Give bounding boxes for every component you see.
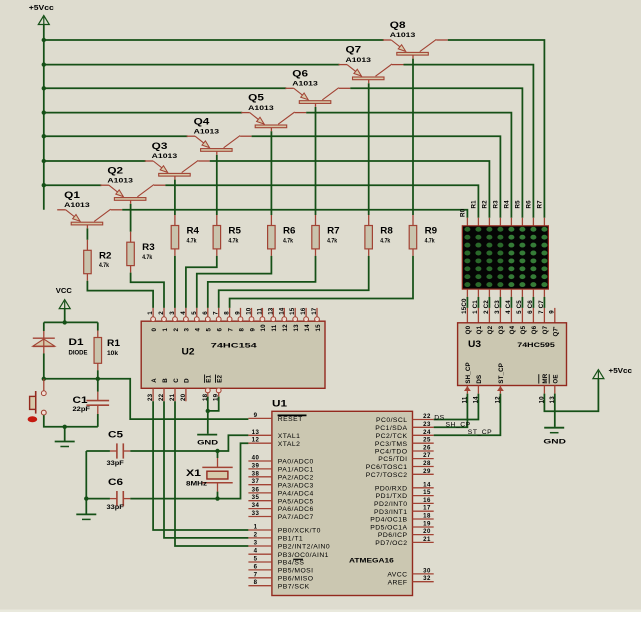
svg-text:8: 8 (224, 311, 231, 315)
svg-text:12: 12 (252, 437, 260, 444)
svg-text:4.7k: 4.7k (283, 237, 293, 244)
svg-text:74HC595: 74HC595 (517, 342, 555, 349)
svg-text:SH_CP: SH_CP (465, 362, 472, 383)
svg-text:+5Vcc: +5Vcc (29, 5, 54, 12)
svg-text:33pF: 33pF (107, 460, 124, 467)
svg-text:9: 9 (249, 328, 256, 332)
svg-text:23: 23 (423, 421, 431, 428)
svg-text:PA1/ADC1: PA1/ADC1 (278, 467, 314, 474)
power +5Vcc (top-left) (29, 5, 54, 25)
svg-text:PC2/TCK: PC2/TCK (376, 433, 408, 440)
svg-text:Q1: Q1 (64, 190, 80, 200)
svg-text:MR: MR (542, 373, 549, 383)
wire: U3 MR to +5Vcc (544, 379, 598, 411)
svg-text:Q5: Q5 (520, 325, 527, 334)
svg-text:ST_CP: ST_CP (498, 363, 505, 384)
svg-text:10k: 10k (107, 350, 118, 357)
transistor Q1 (A1013, PNP) (57, 190, 122, 229)
svg-text:0: 0 (151, 328, 158, 332)
svg-text:12: 12 (494, 396, 501, 404)
svg-text:R3: R3 (142, 242, 155, 252)
svg-text:PA5/ADC5: PA5/ADC5 (278, 498, 314, 505)
resistor R4 (4.7k) (171, 215, 199, 256)
svg-text:A1013: A1013 (292, 81, 318, 88)
svg-text:PB3/OC0/AIN1: PB3/OC0/AIN1 (278, 552, 329, 559)
svg-text:4: 4 (195, 328, 202, 332)
svg-text:PD7/OC2: PD7/OC2 (375, 540, 407, 547)
svg-text:PB4/SS: PB4/SS (278, 560, 305, 567)
wire: emitter feed Q8 (44, 39, 384, 41)
U3 control pin names SH_CP, DS, ST_CP, MR, OE (465, 362, 559, 383)
U2 top pins (stubs and inverting bubbles) (151, 308, 320, 322)
svg-text:PD0/RXD: PD0/RXD (375, 485, 408, 492)
svg-text:8MHz: 8MHz (186, 481, 208, 488)
capacitor C1 (22pF) (73, 392, 110, 414)
svg-text:19: 19 (423, 521, 431, 528)
svg-text:21: 21 (169, 393, 176, 401)
wire: collector Q2 to matrix R1 (165, 185, 478, 218)
wire: C5 left (86, 450, 110, 452)
svg-text:28: 28 (423, 460, 431, 467)
svg-text:DIODE: DIODE (69, 350, 88, 357)
wire: C6 left (86, 498, 110, 500)
svg-text:PD2/INT0: PD2/INT0 (374, 501, 407, 508)
svg-text:16: 16 (300, 307, 307, 315)
svg-text:Q2: Q2 (487, 325, 494, 334)
wire: C5/C6 ground rail (85, 451, 87, 514)
wire: R1 top (97, 322, 99, 330)
svg-text:PB5/MOSI: PB5/MOSI (278, 568, 314, 575)
wire: R3 to U2 pin 2 (131, 273, 164, 308)
svg-text:36: 36 (252, 486, 260, 493)
svg-text:9: 9 (254, 412, 258, 419)
resistor R9 (4.7k) (409, 215, 437, 256)
svg-text:20: 20 (180, 393, 187, 401)
svg-text:A1013: A1013 (64, 202, 90, 209)
svg-text:1: 1 (162, 328, 169, 332)
wire: crystal top stub (217, 451, 219, 458)
resistor R5 (4.7k) (213, 215, 241, 256)
wire: matrix C1 to U3 Q1 (477, 297, 479, 308)
power +5Vcc (right) (593, 368, 632, 379)
svg-text:C: C (173, 378, 180, 383)
IC U3 (74HC595) body (458, 323, 567, 386)
wire: VCC to node (64, 309, 66, 323)
wire: collector Q3 to matrix R2 (210, 161, 490, 218)
svg-text:C5: C5 (108, 430, 123, 440)
ground symbol below U2 (GND) (197, 435, 218, 447)
wire: matrix C4 to U3 Q4 (510, 297, 512, 308)
U2 pin names A,B,C,D (151, 378, 191, 383)
svg-text:38: 38 (252, 470, 260, 477)
wire: matrix C3 to U3 Q3 (499, 297, 501, 308)
svg-text:2: 2 (173, 328, 180, 332)
wire: base Q8 to R9 (412, 59, 414, 215)
svg-text:PD3/INT1: PD3/INT1 (374, 509, 407, 516)
transistor Q6 (A1013, PNP) (285, 68, 350, 107)
svg-text:R5: R5 (228, 226, 241, 236)
svg-text:27: 27 (423, 452, 431, 459)
svg-text:B: B (162, 378, 169, 383)
wire: C1 bottom (97, 414, 99, 427)
wire: U2 A to U1 PB0 (153, 401, 248, 530)
wire: base Q1 to R2 (86, 228, 88, 239)
U2 top pin numbers (147, 307, 318, 315)
transistor Q5 (A1013, PNP) (241, 93, 306, 132)
svg-text:32: 32 (423, 575, 431, 582)
svg-text:D: D (184, 378, 191, 383)
svg-text:11: 11 (256, 308, 263, 315)
wire: E2 to ground (208, 397, 219, 411)
power VCC arrow (56, 288, 72, 308)
IC U1 (ATMEGA16) body (272, 399, 413, 596)
svg-text:PD6/ICP: PD6/ICP (378, 532, 408, 539)
svg-text:A1013: A1013 (194, 128, 220, 135)
svg-text:Q5: Q5 (248, 93, 264, 103)
wire: C5 to crystal/XTAL1 (130, 435, 248, 451)
wire: collector Q6 to matrix R5 (350, 88, 522, 218)
junction: R1/C1 (96, 377, 100, 381)
wire: button to ground rail (44, 415, 98, 427)
svg-text:6 C6: 6 C6 (527, 300, 534, 314)
svg-text:R9: R9 (425, 226, 438, 236)
svg-text:R6: R6 (526, 200, 533, 209)
resistor R3 (4.7k) (127, 232, 155, 273)
svg-text:8: 8 (254, 579, 258, 586)
U1 right pin names (366, 417, 408, 586)
svg-text:21: 21 (423, 536, 431, 543)
svg-text:PC6/TOSC1: PC6/TOSC1 (366, 464, 408, 471)
junction: bus / Q3 emitter (42, 159, 46, 163)
svg-text:GND: GND (543, 438, 566, 445)
svg-text:PA0/ADC0: PA0/ADC0 (278, 459, 314, 466)
svg-text:33: 33 (252, 510, 260, 517)
svg-text:5 C5: 5 C5 (516, 300, 523, 314)
svg-text:3: 3 (184, 328, 191, 332)
junction: crystal top (215, 449, 219, 453)
svg-text:7 C7: 7 C7 (538, 300, 545, 314)
svg-text:7: 7 (213, 311, 220, 315)
wire: base Q6 to R7 (315, 107, 317, 215)
svg-text:R7: R7 (537, 200, 544, 209)
svg-text:11: 11 (271, 324, 278, 331)
wire: emitter feed Q4 (44, 135, 188, 137)
wire: emitter feed Q5 (44, 112, 242, 114)
svg-text:PB0/XCK/T0: PB0/XCK/T0 (278, 528, 321, 535)
svg-text:PD1/TXD: PD1/TXD (376, 493, 408, 500)
wire: U2 B to U1 PB1 (164, 401, 248, 538)
svg-text:PA3/ADC3: PA3/ADC3 (278, 482, 314, 489)
svg-text:Q6: Q6 (531, 325, 538, 334)
junction: ground rail (62, 425, 66, 429)
transistor Q2 (A1013, PNP) (100, 165, 165, 204)
U2 bottom pins A,B,C,D stubs (153, 388, 186, 401)
svg-text:16: 16 (423, 497, 431, 504)
svg-text:3: 3 (254, 540, 258, 547)
svg-text:4.7k: 4.7k (327, 237, 337, 244)
svg-text:9: 9 (549, 310, 556, 314)
svg-text:12: 12 (282, 324, 289, 332)
svg-text:14: 14 (423, 481, 431, 488)
IC U2 (74HC154) body (141, 321, 325, 388)
svg-text:13: 13 (293, 324, 300, 332)
push button (reset switch) (28, 379, 47, 423)
wire: +5V vertical bus (43, 25, 45, 210)
wire: emitter feed Q7 (44, 64, 340, 66)
wire: base Q2 to R3 (130, 204, 132, 232)
svg-text:E1: E1 (206, 375, 213, 383)
svg-text:35: 35 (252, 494, 260, 501)
svg-text:Q0: Q0 (465, 325, 472, 334)
svg-text:1 C1: 1 C1 (472, 300, 479, 314)
wire: R8 to U2 pin 7 (219, 256, 369, 308)
svg-text:9: 9 (235, 311, 242, 315)
wire: U3 OE to ground (554, 394, 556, 427)
wire: R5 to U2 pin 4 (186, 256, 217, 308)
svg-text:VCC: VCC (56, 288, 72, 295)
capacitor C6 (33pF) (107, 477, 131, 511)
svg-text:5: 5 (254, 556, 258, 563)
svg-text:RESET: RESET (278, 416, 303, 423)
resistor R6 (4.7k) (268, 215, 296, 256)
svg-text:A1013: A1013 (107, 177, 133, 184)
wire: collector Q5 to matrix R4 (306, 113, 511, 218)
U3 bottom pin stubs and clock arrows (464, 386, 555, 394)
wire: base Q4 to R5 (216, 155, 218, 215)
LED matrix top pin stubs (467, 218, 544, 226)
svg-text:R6: R6 (283, 226, 296, 236)
svg-text:7: 7 (254, 571, 258, 578)
svg-text:17: 17 (311, 307, 318, 315)
svg-text:A1013: A1013 (152, 153, 178, 160)
wire: D1 top (43, 322, 45, 331)
svg-text:X1: X1 (186, 468, 201, 478)
svg-text:AVCC: AVCC (387, 572, 407, 579)
wire: ST_CP net (U1 pin24 to U3 ST_CP) (434, 394, 501, 436)
svg-text:PC3/TMS: PC3/TMS (375, 441, 408, 448)
svg-text:Q7': Q7' (553, 326, 560, 337)
svg-text:40: 40 (252, 455, 260, 462)
svg-text:15: 15 (289, 307, 296, 315)
ground symbol (crystal circuit) (76, 514, 96, 519)
wire: VCC node horizontal (44, 321, 98, 323)
wire: DS net (U1 pin22 to U3 DS) (434, 394, 479, 420)
wire: base Q5 to R6 (270, 131, 272, 215)
svg-text:8: 8 (238, 328, 245, 332)
svg-text:Q3: Q3 (152, 141, 168, 151)
svg-text:14: 14 (278, 307, 285, 315)
svg-text:22: 22 (158, 393, 165, 401)
svg-text:4.7k: 4.7k (425, 237, 435, 244)
svg-text:5: 5 (191, 311, 198, 315)
transistor Q4 (A1013, PNP) (187, 116, 252, 155)
wire: C1 top (97, 379, 99, 392)
svg-text:A: A (151, 378, 158, 383)
svg-text:23: 23 (147, 393, 154, 401)
svg-text:Q4: Q4 (509, 325, 516, 334)
svg-text:6: 6 (217, 328, 224, 332)
junction: bus / Q2 emitter (42, 183, 46, 187)
svg-text:3: 3 (169, 311, 176, 315)
svg-text:C1: C1 (73, 395, 88, 405)
wire: emitter feed Q3 (44, 160, 146, 162)
svg-text:3 C3: 3 C3 (494, 300, 501, 314)
wire: R9 to U2 pin 8 (230, 256, 413, 308)
svg-text:R0: R0 (460, 208, 467, 217)
resistor R8 (4.7k) (365, 215, 393, 256)
wire: R2 to U2 pin 1 (87, 281, 153, 308)
svg-text:XTAL2: XTAL2 (278, 441, 301, 448)
capacitor C5 (33pF) (107, 430, 131, 467)
U1 right pin stubs (413, 420, 434, 582)
svg-text:Q2: Q2 (107, 165, 123, 175)
svg-text:C6: C6 (108, 477, 123, 487)
svg-text:4.7k: 4.7k (228, 237, 238, 244)
svg-text:R1: R1 (471, 200, 478, 209)
svg-text:PB2/INT2/AIN0: PB2/INT2/AIN0 (278, 544, 330, 551)
junction: C6/ground rail (84, 496, 88, 500)
ground symbol below U3 (544, 428, 564, 433)
svg-text:+5Vcc: +5Vcc (609, 368, 633, 375)
transistor Q3 (A1013, PNP) (145, 141, 210, 180)
svg-text:PA6/ADC6: PA6/ADC6 (278, 506, 314, 513)
svg-text:D1: D1 (69, 337, 84, 347)
ground symbol (reset circuit) (55, 442, 75, 447)
svg-text:18: 18 (423, 513, 431, 520)
U1 right pin numbers (423, 413, 431, 582)
junction: crystal bottom (215, 496, 219, 500)
svg-text:1: 1 (254, 524, 258, 531)
svg-text:R4: R4 (187, 226, 200, 236)
svg-text:PC7/TOSC2: PC7/TOSC2 (366, 472, 408, 479)
svg-text:4 C4: 4 C4 (505, 300, 512, 314)
svg-text:R1: R1 (107, 338, 120, 348)
svg-text:4: 4 (254, 548, 258, 555)
svg-text:4.7k: 4.7k (380, 237, 390, 244)
svg-text:R8: R8 (380, 226, 393, 236)
wire: E1 to ground (207, 397, 209, 434)
wire: base Q3 to R4 (174, 180, 176, 215)
svg-text:PC0/SCL: PC0/SCL (376, 417, 407, 424)
svg-text:25: 25 (423, 437, 431, 444)
svg-text:4.7k: 4.7k (99, 262, 109, 269)
svg-text:GND: GND (197, 439, 218, 446)
svg-text:2: 2 (254, 531, 258, 538)
svg-text:11: 11 (461, 396, 468, 403)
wire: collector Q7 to matrix R6 (404, 65, 534, 218)
junction: E1/E2 (206, 409, 210, 413)
wire: collector Q8 to matrix R7 (448, 40, 545, 218)
wire: base Q7 to R8 (368, 83, 370, 215)
svg-text:ST_CP: ST_CP (468, 429, 492, 436)
svg-text:10: 10 (246, 307, 253, 315)
svg-text:14: 14 (304, 324, 311, 332)
wire: crystal bottom stub (217, 492, 219, 499)
wire: U2 C to U1 PB2 (175, 401, 248, 546)
wire: emitter feed Q6 (44, 87, 286, 89)
svg-text:R5: R5 (515, 200, 522, 209)
junction: bus / Q6 emitter (42, 86, 46, 90)
svg-text:4: 4 (180, 311, 187, 315)
svg-text:20: 20 (423, 528, 431, 535)
svg-text:Q4: Q4 (194, 116, 210, 126)
wire: matrix C2 to U3 Q2 (488, 297, 490, 308)
svg-text:14: 14 (472, 396, 479, 404)
U3 top pin numbers and net labels C0-C7 (461, 298, 545, 314)
svg-text:PA7/ADC7: PA7/ADC7 (278, 514, 314, 521)
svg-text:U2: U2 (182, 346, 195, 356)
svg-text:17: 17 (423, 505, 431, 512)
svg-text:Q7: Q7 (346, 45, 362, 55)
svg-text:PB7/SCK: PB7/SCK (278, 583, 310, 590)
svg-text:ATMEGA16: ATMEGA16 (349, 558, 394, 565)
wire: matrix C6 to U3 Q6 (532, 297, 534, 308)
svg-text:30: 30 (423, 567, 431, 574)
svg-text:U1: U1 (272, 399, 287, 409)
U1 left pin names (278, 415, 331, 590)
junction: VCC node (62, 320, 66, 324)
svg-text:24: 24 (423, 429, 431, 436)
svg-text:DS: DS (476, 375, 483, 384)
svg-text:4.7k: 4.7k (187, 237, 197, 244)
svg-text:7: 7 (227, 328, 234, 332)
svg-text:26: 26 (423, 445, 431, 452)
resistor R1 (10k) (94, 331, 120, 371)
svg-text:29: 29 (423, 468, 431, 475)
svg-text:XTAL1: XTAL1 (278, 433, 301, 440)
junction: bus / Q4 emitter (42, 134, 46, 138)
wire: reset node to U1 RESET (44, 379, 249, 419)
svg-text:Q8: Q8 (390, 20, 406, 30)
matrix/U3 pin stubs (467, 289, 544, 323)
wire: C6 to crystal/XTAL2 (130, 443, 248, 498)
wire: emitter feed Q2 (44, 184, 102, 186)
wire: collector Q1 to matrix R0 (122, 210, 467, 218)
svg-text:PD5/OC1A: PD5/OC1A (370, 525, 407, 532)
resistor R2 (4.7k) (84, 240, 112, 281)
svg-text:5: 5 (206, 328, 213, 332)
svg-text:PA2/ADC2: PA2/ADC2 (278, 474, 314, 481)
svg-text:37: 37 (252, 478, 260, 485)
svg-text:R3: R3 (493, 200, 500, 209)
svg-text:Q6: Q6 (292, 68, 308, 78)
junction: bus / Q5 emitter (42, 110, 46, 114)
svg-text:2 C2: 2 C2 (483, 300, 490, 314)
transistor Q8 (A1013, PNP) (383, 20, 448, 59)
svg-text:R4: R4 (504, 200, 511, 209)
wire: matrix C7 to U3 Q7 (543, 297, 545, 308)
U3 output names Q0-Q7, Q7' (465, 325, 559, 336)
wire: SH_CP net (U1 pin23 to U3 SH_CP) (434, 394, 468, 428)
svg-text:E2: E2 (217, 375, 224, 383)
svg-text:13: 13 (267, 307, 274, 315)
svg-text:SH_CP: SH_CP (446, 421, 471, 428)
svg-text:15: 15 (423, 489, 431, 496)
svg-text:1: 1 (147, 311, 154, 315)
wire: R7 to U2 pin 6 (208, 256, 316, 308)
svg-text:Q1: Q1 (476, 325, 483, 334)
junction: bus / Q7 emitter (42, 62, 46, 66)
svg-text:6: 6 (202, 311, 209, 315)
svg-text:R2: R2 (482, 200, 489, 209)
svg-text:13: 13 (252, 429, 260, 436)
svg-text:OE: OE (553, 374, 560, 383)
crystal X1 (8MHz) (186, 458, 233, 492)
svg-text:PC1/SDA: PC1/SDA (375, 425, 407, 432)
svg-text:33pF: 33pF (107, 504, 124, 511)
svg-text:PC5/TDI: PC5/TDI (378, 456, 407, 463)
transistor Q7 (A1013, PNP) (339, 45, 404, 83)
